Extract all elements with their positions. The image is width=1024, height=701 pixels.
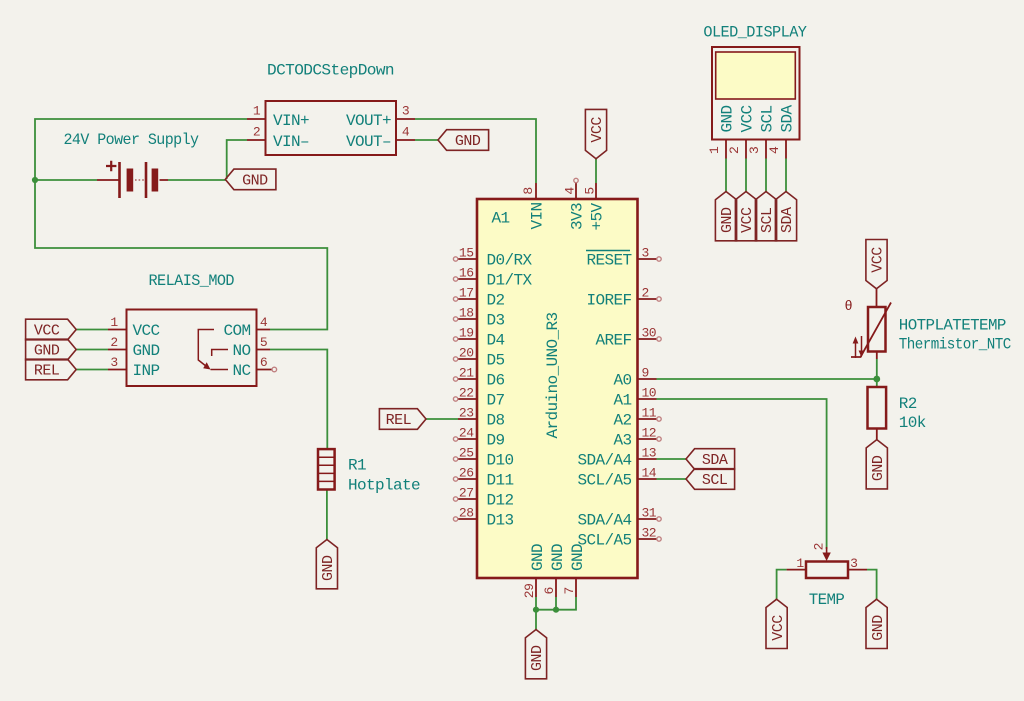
svg-text:2: 2 (110, 335, 117, 350)
REL tag at relay pin 3 (26, 359, 77, 380)
svg-text:VCC: VCC (34, 323, 60, 340)
svg-text:8: 8 (521, 187, 536, 194)
OLED display DS1 OLED_DISPLAY (707, 47, 800, 159)
svg-text:INP: INP (133, 362, 160, 380)
svg-text:16: 16 (459, 266, 474, 281)
svg-text:18: 18 (459, 306, 474, 321)
svg-text:1: 1 (110, 315, 118, 330)
svg-text:GND: GND (242, 173, 268, 190)
svg-text:IOREF: IOREF (586, 292, 631, 310)
GND tag at relay pin 2 (26, 339, 77, 360)
svg-text:D6: D6 (487, 372, 505, 390)
svg-text:4: 4 (402, 125, 410, 140)
SDA tag OLED pin 4 (775, 192, 796, 241)
svg-text:D13: D13 (487, 512, 514, 530)
svg-text:27: 27 (459, 486, 474, 501)
svg-text:3: 3 (402, 104, 409, 119)
svg-text:4: 4 (260, 315, 268, 330)
svg-text:R2: R2 (899, 395, 917, 413)
svg-text:31: 31 (642, 506, 657, 521)
junction thermistor divider node (873, 376, 880, 383)
svg-text:GND: GND (569, 544, 587, 571)
svg-text:GND: GND (719, 207, 736, 233)
SCL tag OLED pin 3 (755, 192, 776, 241)
svg-text:10: 10 (642, 386, 657, 401)
svg-text:2: 2 (727, 147, 742, 154)
svg-text:5: 5 (583, 187, 598, 194)
junction Arduino GND pin 29 (533, 607, 539, 613)
svg-text:3: 3 (850, 556, 857, 571)
REL tag at pin 23 (379, 409, 426, 430)
GND tag OLED pin 1 (715, 192, 736, 241)
svg-text:SDA: SDA (779, 207, 796, 233)
svg-text:D12: D12 (487, 492, 514, 510)
svg-text:4: 4 (563, 187, 578, 195)
svg-text:19: 19 (459, 326, 474, 341)
GND tag at VOUT- (438, 130, 489, 151)
wire SCL pin 14 to SCL tag (657, 478, 687, 480)
svg-text:Thermistor_NTC: Thermistor_NTC (899, 336, 1011, 354)
svg-text:10k: 10k (899, 414, 926, 432)
svg-text:RESET: RESET (586, 252, 631, 270)
svg-text:R1: R1 (348, 457, 366, 475)
svg-text:D9: D9 (487, 432, 505, 450)
wire VOUT+ to Arduino VIN pin 8 (415, 119, 536, 183)
svg-text:12: 12 (642, 426, 657, 441)
svg-text:13: 13 (642, 446, 657, 461)
wire VOUT- to GND tag (415, 139, 438, 141)
svg-text:23: 23 (459, 406, 474, 421)
wire A1 pin 10 to potentiometer wiper (657, 399, 827, 549)
SCL tag at pin 14 (686, 469, 735, 490)
svg-text:28: 28 (459, 506, 474, 521)
svg-text:3: 3 (110, 355, 117, 370)
svg-text:6: 6 (542, 587, 557, 594)
svg-text:VIN: VIN (529, 202, 547, 229)
svg-text:A2: A2 (613, 412, 631, 430)
svg-text:25: 25 (459, 446, 474, 461)
svg-text:6: 6 (260, 355, 267, 370)
wire R1 bottom to GND tag (326, 490, 328, 540)
wire battery minus to GND tag (168, 179, 226, 181)
svg-text:HOTPLATETEMP: HOTPLATETEMP (899, 317, 1006, 335)
svg-text:D7: D7 (487, 392, 505, 410)
wire OLED pin 4 to SDA tag (785, 159, 787, 192)
wire SDA pin 13 to SDA tag (657, 458, 687, 460)
svg-text:NC: NC (232, 362, 250, 380)
svg-text:1: 1 (707, 146, 722, 154)
svg-text:Hotplate: Hotplate (348, 477, 420, 495)
svg-text:9: 9 (642, 366, 649, 381)
svg-text:17: 17 (459, 286, 474, 301)
wire OLED pin 3 to SCL tag (765, 159, 767, 192)
svg-text:GND: GND (320, 555, 337, 581)
svg-text:D4: D4 (487, 332, 505, 350)
svg-text:24V Power Supply: 24V Power Supply (64, 131, 200, 149)
svg-text:GND: GND (719, 105, 737, 132)
svg-text:SDA: SDA (779, 105, 797, 133)
Arduino A1 Arduino_UNO_R3 (453, 178, 661, 598)
GND tag at battery (225, 169, 276, 190)
svg-text:1: 1 (796, 556, 804, 571)
svg-text:REL: REL (34, 363, 60, 380)
svg-text:θ: θ (845, 300, 853, 315)
wire REL tag to relay pin 3 (76, 369, 108, 371)
resistor R1 Hotplate heater (318, 449, 335, 489)
svg-text:GND: GND (529, 645, 546, 671)
junction Arduino GND pin 6 (553, 607, 559, 613)
svg-text:REL: REL (386, 412, 412, 429)
svg-text:D0/RX: D0/RX (487, 252, 533, 270)
wire thermistor bottom to node to R2 top (876, 359, 878, 387)
svg-text:D2: D2 (487, 292, 505, 310)
svg-text:GND: GND (870, 615, 887, 641)
wire VIN- down to GND node (227, 140, 247, 179)
DC-DC converter U2 DCTODCStepDown (247, 101, 415, 155)
svg-text:VCC: VCC (770, 615, 787, 641)
svg-text:VOUT+: VOUT+ (346, 112, 391, 130)
svg-text:4: 4 (767, 146, 782, 154)
svg-text:AREF: AREF (595, 332, 631, 350)
svg-text:D10: D10 (487, 452, 514, 470)
svg-text:D11: D11 (487, 472, 514, 490)
svg-text:3: 3 (747, 147, 762, 154)
wire VCC tag to relay pin 1 (76, 329, 108, 331)
svg-text:1: 1 (253, 104, 261, 119)
svg-text:+5V: +5V (589, 203, 607, 231)
svg-text:3V3: 3V3 (569, 203, 587, 230)
resistor R2 10k (868, 387, 887, 440)
svg-text:NO: NO (232, 342, 250, 360)
svg-text:SDA: SDA (702, 452, 728, 469)
VCC tag at potentiometer pin 1 (766, 599, 787, 648)
svg-text:32: 32 (642, 526, 657, 541)
svg-text:Arduino_UNO_R3: Arduino_UNO_R3 (544, 312, 562, 438)
svg-text:GND: GND (133, 342, 160, 360)
svg-text:A1: A1 (492, 210, 510, 228)
wire OLED pin 1 to GND tag (725, 159, 727, 192)
svg-text:11: 11 (642, 406, 657, 421)
svg-text:RELAIS_MOD: RELAIS_MOD (149, 272, 235, 290)
svg-text:GND: GND (529, 544, 547, 571)
svg-text:14: 14 (642, 466, 657, 481)
svg-text:VIN+: VIN+ (273, 112, 309, 130)
VCC tag at relay pin 1 (26, 319, 77, 340)
svg-text:DCTODCStepDown: DCTODCStepDown (267, 62, 394, 80)
svg-text:21: 21 (459, 366, 474, 381)
svg-text:D3: D3 (487, 312, 505, 330)
GND tag at potentiometer pin 3 (866, 599, 887, 648)
svg-text:A3: A3 (613, 432, 631, 450)
wire potentiometer pin 3 to GND tag (867, 570, 877, 600)
wire battery node down to relay COM pin 4 (35, 180, 327, 330)
svg-text:SCL: SCL (759, 105, 777, 132)
svg-text:SCL/A5: SCL/A5 (577, 472, 631, 490)
wire REL tag to D8 pin 23 (426, 418, 458, 420)
svg-text:20: 20 (459, 346, 474, 361)
svg-text:GND: GND (549, 544, 567, 571)
wire VCC tag to +5V pin 5 (595, 159, 597, 183)
VCC tag OLED pin 2 (735, 192, 756, 241)
svg-text:24: 24 (459, 426, 474, 441)
svg-text:D1/TX: D1/TX (487, 272, 533, 290)
wire relay NO pin 5 to hotplate R1 (270, 350, 327, 450)
svg-text:D5: D5 (487, 352, 505, 370)
wire OLED pin 2 to VCC tag (745, 159, 747, 192)
GND tag below Arduino (525, 630, 546, 679)
svg-text:SDA/A4: SDA/A4 (577, 452, 631, 470)
svg-text:VIN–: VIN– (273, 133, 309, 151)
svg-text:VCC: VCC (739, 207, 756, 233)
potentiometer RV1 TEMP (787, 543, 867, 578)
svg-text:VOUT–: VOUT– (346, 133, 391, 151)
svg-text:VCC: VCC (739, 105, 757, 132)
svg-text:GND: GND (870, 455, 887, 481)
svg-text:3: 3 (642, 246, 649, 261)
svg-text:SCL: SCL (759, 207, 776, 233)
svg-text:2: 2 (812, 543, 827, 550)
SDA tag at pin 13 (686, 449, 735, 470)
svg-text:2: 2 (253, 125, 260, 140)
svg-text:SDA/A4: SDA/A4 (577, 512, 631, 530)
svg-text:29: 29 (522, 584, 537, 599)
svg-text:30: 30 (642, 326, 657, 341)
svg-text:TEMP: TEMP (809, 591, 845, 609)
svg-text:A0: A0 (613, 372, 631, 390)
wire battery plus up to VIN+ (35, 119, 247, 180)
svg-text:VCC: VCC (870, 247, 887, 273)
wire Arduino GND pins to GND tag (536, 597, 576, 630)
svg-text:22: 22 (459, 386, 474, 401)
svg-text:GND: GND (455, 133, 481, 150)
wire potentiometer pin 1 to VCC tag (777, 570, 787, 600)
wire battery left (35, 179, 97, 181)
VCC tag above thermistor (866, 240, 887, 289)
svg-text:D8: D8 (487, 412, 505, 430)
wire GND tag to relay pin 2 (76, 349, 108, 351)
svg-text:COM: COM (223, 322, 250, 340)
svg-text:VCC: VCC (589, 117, 606, 143)
svg-text:5: 5 (260, 335, 267, 350)
svg-text:15: 15 (459, 246, 474, 261)
svg-text:2: 2 (642, 286, 649, 301)
svg-text:SCL: SCL (702, 472, 728, 489)
svg-text:OLED_DISPLAY: OLED_DISPLAY (703, 24, 807, 42)
GND tag below R1 (316, 540, 337, 589)
VCC tag above Arduino +5V (585, 109, 606, 158)
battery BT1 24V Power Supply (97, 161, 168, 198)
svg-text:VCC: VCC (133, 322, 160, 340)
svg-text:26: 26 (459, 466, 474, 481)
svg-text:A1: A1 (613, 392, 631, 410)
GND tag below R2 (866, 440, 887, 489)
svg-text:GND: GND (34, 343, 60, 360)
thermistor TH1 HOTPLATETEMP (845, 289, 892, 359)
wire A0 pin 9 to thermistor divider node (657, 378, 877, 380)
junction battery node (32, 177, 38, 183)
relay module K1 RELAIS_MOD (108, 310, 277, 387)
svg-text:7: 7 (562, 587, 577, 594)
